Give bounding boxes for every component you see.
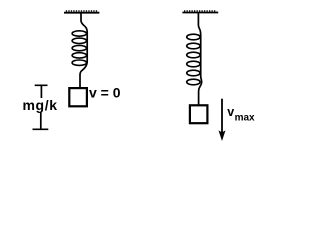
svg-text:mg/k: mg/k [23,97,58,113]
svg-text:v = 0: v = 0 [89,85,121,101]
hanger wire right [198,13,200,31]
spring S1 coil 2 [72,38,86,43]
spring S1 right stroke [80,26,87,87]
hanger wire left [81,13,85,26]
spring S1 coil 4 [72,53,86,58]
ceiling hatching right [184,10,217,12]
spring S2 coil 4 [187,61,200,67]
spring S1 coil 1 [72,31,86,36]
ceiling hatching left [66,10,98,12]
spring S2 coil 1 [187,34,200,40]
dimension top tick [35,85,48,98]
ceiling line right [182,12,218,14]
spring S2 right stroke [199,31,202,106]
velocity arrow [221,99,223,133]
spring S2 coil 2 [187,43,200,49]
dimension bottom tick [33,113,49,130]
svg-text:v: v [227,105,234,119]
spring S2 coil 3 [187,52,200,58]
svg-text:max: max [235,113,255,124]
mass block left [69,88,87,106]
spring S1 coil 3 [72,45,86,50]
ceiling line left [64,12,99,14]
spring S2 coil 6 [187,79,200,85]
spring S2 coil 5 [187,70,200,76]
spring S1 coil 5 [72,60,86,65]
mass block right [190,105,208,123]
